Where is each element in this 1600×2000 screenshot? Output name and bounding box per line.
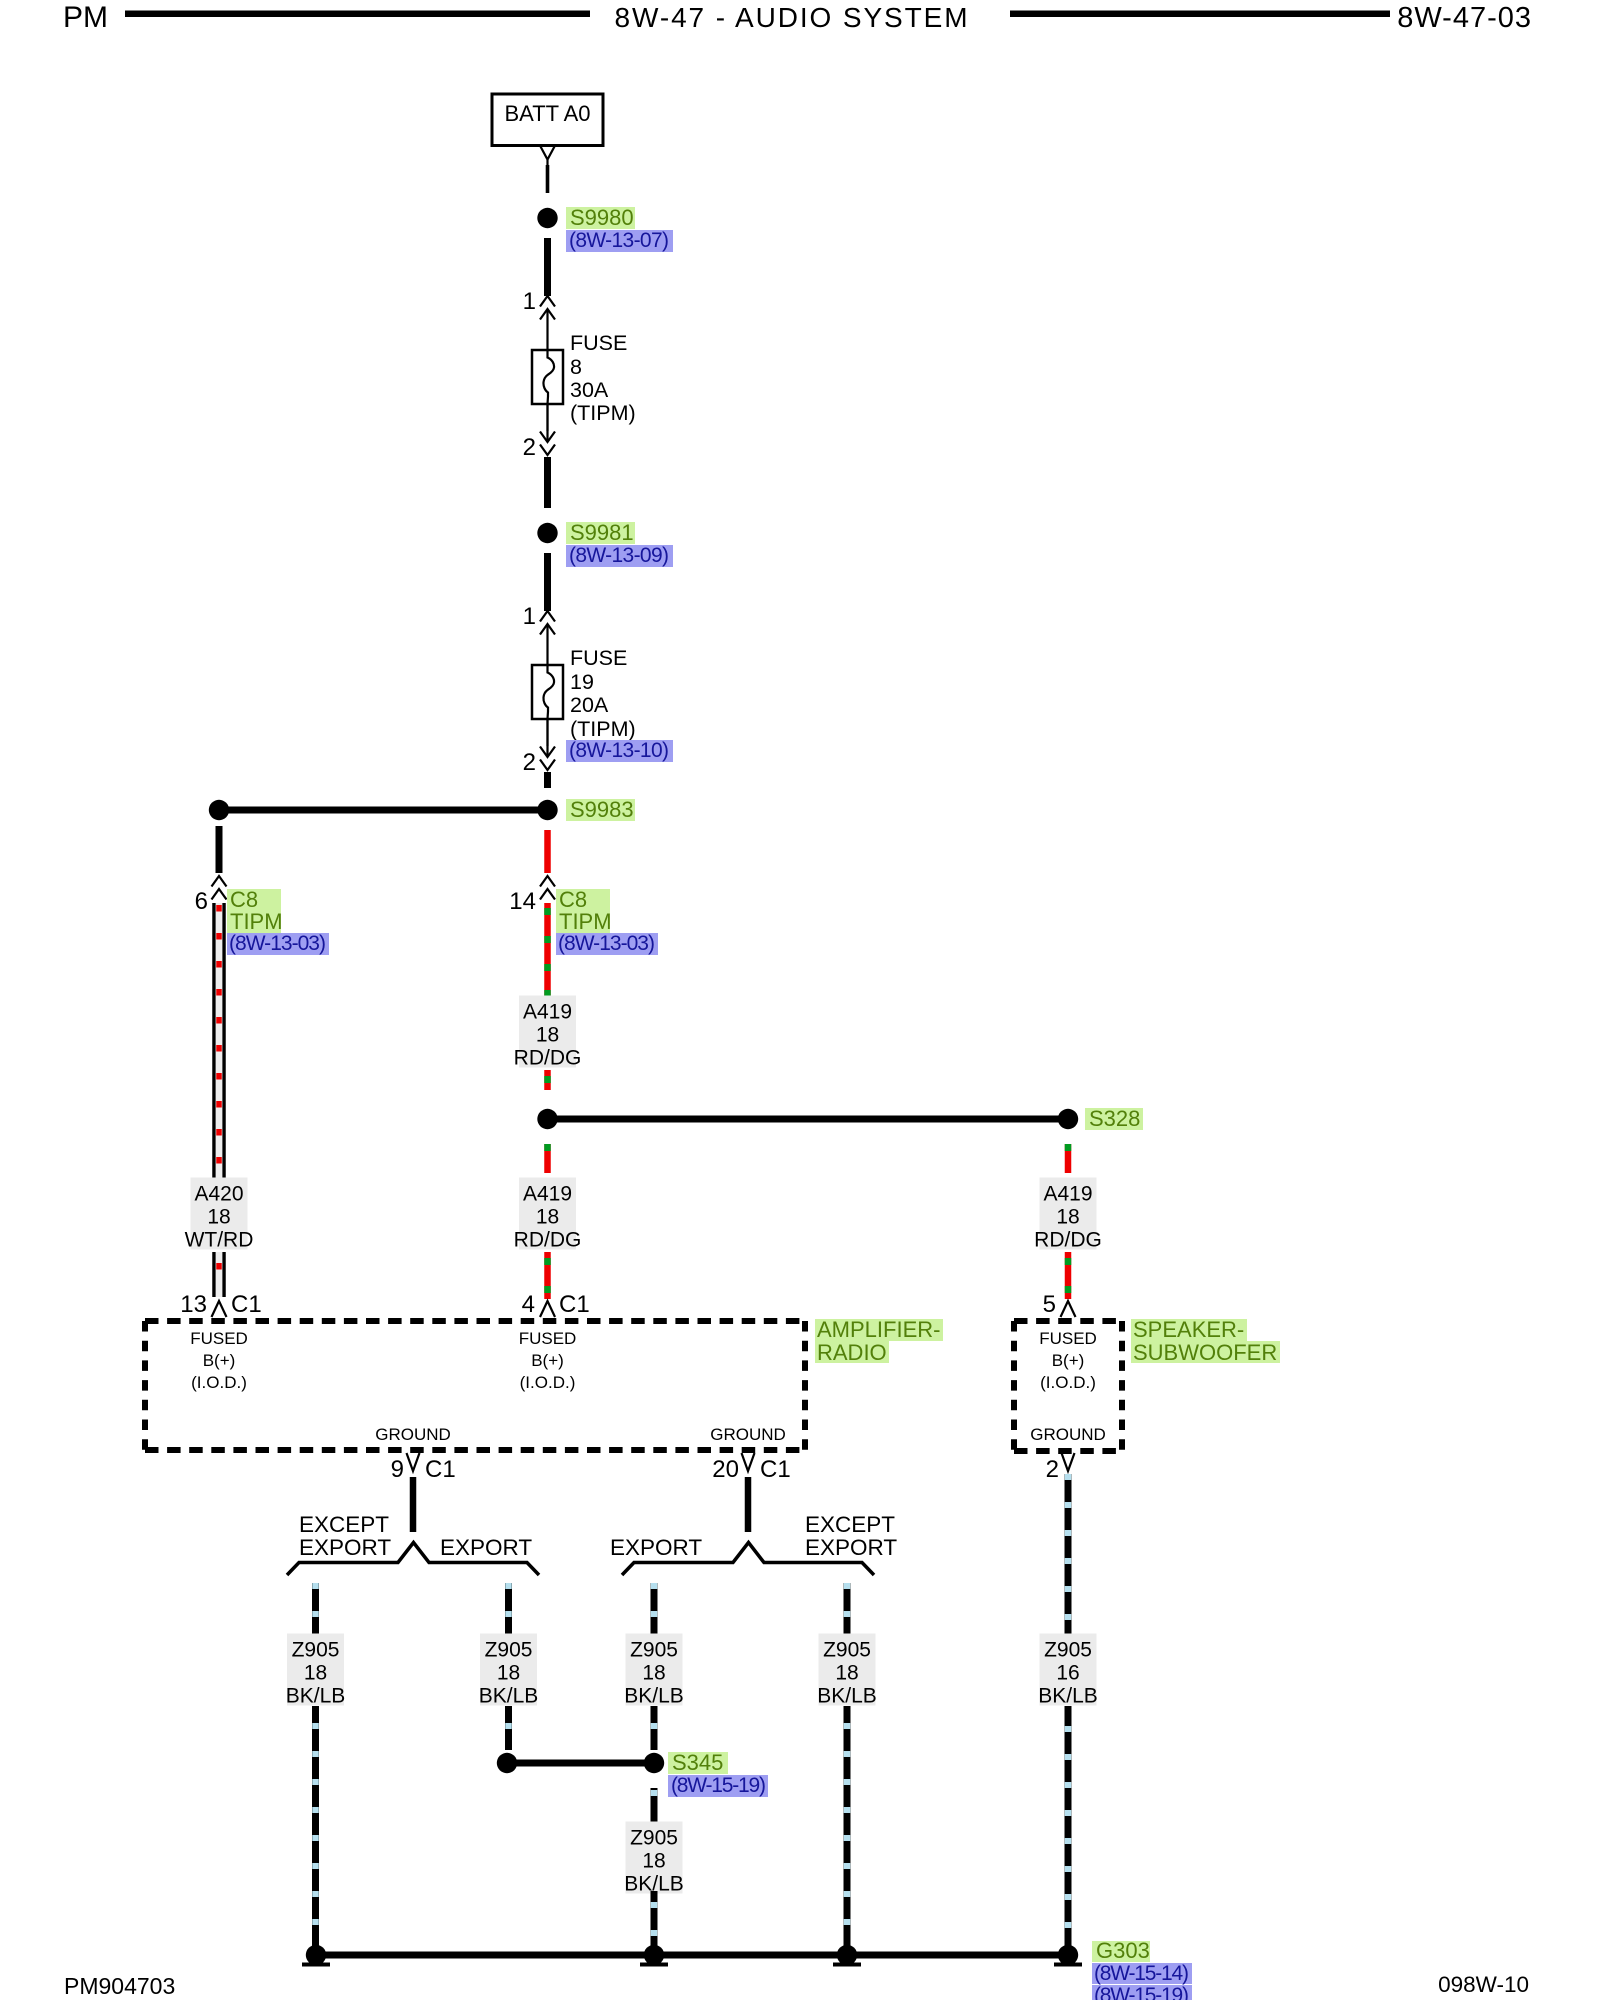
label Z905 18 BK/LB no2 (480, 1634, 537, 1706)
svg-text:EXPORT: EXPORT (299, 1535, 391, 1560)
label S345 (668, 1752, 728, 1774)
svg-text:(8W-13-03): (8W-13-03) (229, 932, 326, 955)
svg-text:PM904703: PM904703 (64, 1973, 175, 1999)
wire Z905 16 BK/LB lower (1065, 1706, 1072, 1950)
label A420 18 WT/RD (191, 1178, 248, 1250)
svg-text:GROUND: GROUND (710, 1425, 786, 1444)
svg-text:5: 5 (1043, 1291, 1056, 1318)
svg-text:(I.O.D.): (I.O.D.) (520, 1373, 576, 1392)
label A419 18 RD/DG right (1040, 1178, 1097, 1250)
svg-text:18: 18 (642, 1850, 665, 1873)
svg-text:FUSE: FUSE (570, 331, 627, 355)
svg-text:EXCEPT: EXCEPT (805, 1512, 895, 1537)
svg-text:A420: A420 (194, 1183, 243, 1206)
svg-text:G303: G303 (1096, 1938, 1150, 1963)
svg-text:FUSED: FUSED (519, 1329, 577, 1348)
svg-text:(8W-13-03): (8W-13-03) (558, 932, 655, 955)
svg-text:(I.O.D.): (I.O.D.) (191, 1373, 247, 1392)
svg-text:BK/LB: BK/LB (286, 1685, 346, 1708)
label (8W-13-03) centre (556, 933, 658, 955)
svg-text:SUBWOOFER: SUBWOOFER (1133, 1340, 1277, 1365)
label SPEAKER-SUBWOOFER (1131, 1319, 1247, 1341)
label Z905 18 BK/LB no4 (819, 1634, 876, 1706)
wire S9983 to C8 pin 14 (544, 830, 551, 873)
label Z905 16 BK/LB (1040, 1634, 1097, 1706)
ground bus G303 (316, 1952, 1068, 1959)
label C8 TIPM centre (556, 889, 610, 933)
svg-text:(8W-13-10): (8W-13-10) (569, 739, 669, 762)
label (8W-15-19) at G303 (1092, 1985, 1192, 2000)
splice S328 bus (548, 1116, 1069, 1123)
label S9981 (566, 522, 635, 544)
wire through fuse 19 (546, 625, 548, 746)
label (8W-13-07) (566, 230, 673, 252)
fuse 8 30A (TIPM) (532, 350, 563, 404)
wire fuse 19 pin 2 to S9983 (544, 772, 551, 788)
svg-text:18: 18 (642, 1662, 665, 1685)
wire through fuse 8 (546, 310, 548, 431)
wire S345 to G303 (651, 1788, 658, 1822)
splice S9980 (537, 208, 557, 228)
svg-text:GROUND: GROUND (1030, 1425, 1106, 1444)
svg-text:TIPM: TIPM (230, 909, 283, 934)
wire A419 18 RD/DG upper (544, 903, 551, 996)
svg-text:EXPORT: EXPORT (440, 1535, 532, 1560)
svg-text:FUSE: FUSE (570, 646, 627, 670)
svg-text:RD/DG: RD/DG (514, 1047, 582, 1070)
wire S9983 to C8 pin 6 (216, 826, 223, 873)
svg-text:(8W-15-14): (8W-15-14) (1094, 1962, 1189, 1985)
svg-text:TIPM: TIPM (559, 909, 612, 934)
svg-text:PM: PM (63, 1, 108, 34)
svg-text:BK/LB: BK/LB (817, 1685, 877, 1708)
svg-text:BATT A0: BATT A0 (504, 101, 590, 126)
svg-text:6: 6 (195, 888, 208, 915)
svg-text:18: 18 (536, 1206, 559, 1229)
wire fuse 19 exit (546, 719, 548, 757)
wire fuse 8 pin 2 to S9981 (544, 457, 551, 508)
splice S9983 bus (219, 807, 548, 814)
svg-text:C1: C1 (760, 1456, 791, 1483)
svg-text:(8W-13-09): (8W-13-09) (569, 544, 669, 567)
svg-text:B(+): B(+) (1052, 1351, 1085, 1370)
label A419 18 RD/DG upper (519, 996, 576, 1068)
svg-text:(8W-13-07): (8W-13-07) (569, 229, 669, 252)
svg-text:2: 2 (523, 434, 536, 461)
svg-text:S328: S328 (1089, 1106, 1140, 1131)
label AMPLIFIER-RADIO (815, 1319, 943, 1341)
svg-text:18: 18 (536, 1024, 559, 1047)
svg-text:(8W-15-19): (8W-15-19) (1094, 1984, 1189, 2000)
svg-text:(TIPM): (TIPM) (570, 401, 636, 425)
wire BATT A0 to S9980 (546, 165, 550, 193)
svg-text:EXPORT: EXPORT (805, 1535, 897, 1560)
wire A419 to subwoofer pin 5 (1065, 1252, 1072, 1299)
svg-text:(I.O.D.): (I.O.D.) (1040, 1373, 1096, 1392)
svg-text:GROUND: GROUND (375, 1425, 451, 1444)
svg-text:Z905: Z905 (823, 1639, 871, 1662)
wire Z905 18 BK/LB no3 mid (651, 1706, 658, 1750)
svg-text:FUSED: FUSED (190, 1329, 248, 1348)
label (8W-15-19) at S345 (668, 1775, 768, 1797)
svg-text:FUSED: FUSED (1039, 1329, 1097, 1348)
svg-text:BK/LB: BK/LB (624, 1685, 684, 1708)
wire A419 18 RD/DG to S328 (544, 1070, 551, 1090)
label Z905 18 BK/LB no3 (626, 1634, 683, 1706)
svg-text:(TIPM): (TIPM) (570, 717, 636, 741)
svg-text:RD/DG: RD/DG (514, 1229, 582, 1252)
wire A420 18 WT/RD upper (212, 903, 216, 1178)
svg-text:9: 9 (391, 1456, 404, 1483)
svg-text:SPEAKER-: SPEAKER- (1133, 1317, 1244, 1342)
svg-text:20A: 20A (570, 693, 609, 717)
svg-text:14: 14 (509, 888, 536, 915)
svg-text:16: 16 (1056, 1662, 1079, 1685)
svg-text:Z905: Z905 (630, 1827, 678, 1850)
label Z905 18 BK/LB no5 (626, 1822, 683, 1894)
svg-text:1: 1 (523, 288, 536, 315)
svg-text:19: 19 (570, 670, 594, 694)
svg-text:B(+): B(+) (203, 1351, 236, 1370)
amplifier-radio dashed outline (145, 1321, 805, 1450)
svg-text:18: 18 (1056, 1206, 1079, 1229)
label C8 TIPM left (227, 889, 281, 933)
svg-text:EXPORT: EXPORT (610, 1535, 702, 1560)
svg-text:S9981: S9981 (570, 520, 634, 545)
wire S328 to A419 label right (1065, 1144, 1072, 1173)
svg-text:2: 2 (1046, 1456, 1059, 1483)
svg-text:BK/LB: BK/LB (479, 1685, 539, 1708)
label S328 (1085, 1108, 1143, 1130)
svg-text:BK/LB: BK/LB (1038, 1685, 1098, 1708)
svg-text:20: 20 (712, 1456, 739, 1483)
wire Z905 16 BK/LB right (1065, 1474, 1072, 1637)
svg-text:8W-47-03: 8W-47-03 (1397, 2, 1532, 34)
wire A419 to C1 pin 4 (544, 1252, 551, 1299)
svg-text:A419: A419 (523, 1183, 572, 1206)
label S9980 (566, 207, 635, 229)
wire Z905 18 BK/LB no1 upper (312, 1583, 319, 1637)
wire Z905 below label no5 (651, 1891, 658, 1950)
battery B+ source BATT A0 (492, 94, 603, 146)
svg-text:8W-47 - AUDIO SYSTEM: 8W-47 - AUDIO SYSTEM (615, 2, 970, 33)
svg-text:B(+): B(+) (531, 1351, 564, 1370)
wire Z905 18 BK/LB no2 upper (505, 1583, 512, 1637)
svg-text:WT/RD: WT/RD (185, 1229, 254, 1252)
wire C1 pin 20 down (745, 1477, 752, 1532)
svg-text:30A: 30A (570, 378, 609, 402)
wire Z905 18 BK/LB no1 lower (312, 1706, 319, 1950)
splice S345 bus (507, 1760, 654, 1767)
terminal Y below BATT A0 (541, 147, 555, 166)
svg-text:18: 18 (497, 1662, 520, 1685)
svg-text:S345: S345 (672, 1750, 723, 1775)
svg-text:S9980: S9980 (570, 205, 634, 230)
branch fork pin 20 (622, 1543, 874, 1576)
svg-text:A419: A419 (523, 1001, 572, 1024)
branch fork pin 9 (287, 1543, 539, 1576)
wire Z905 18 BK/LB no4 lower (844, 1706, 851, 1950)
header rule left (125, 11, 590, 18)
svg-text:18: 18 (835, 1662, 858, 1685)
label Z905 18 BK/LB no1 (287, 1634, 344, 1706)
svg-text:(8W-15-19): (8W-15-19) (671, 1774, 766, 1797)
label G303 (1092, 1941, 1150, 1962)
svg-text:RD/DG: RD/DG (1034, 1229, 1102, 1252)
wire C1 pin 9 down (410, 1477, 417, 1532)
svg-text:C1: C1 (425, 1456, 456, 1483)
wire S9980 to fuse 8 pin 1 (544, 238, 551, 296)
svg-text:18: 18 (304, 1662, 327, 1685)
label A419 18 RD/DG centre (519, 1178, 576, 1250)
svg-text:8: 8 (570, 355, 582, 379)
wire A420 18 WT/RD lower (212, 1252, 216, 1297)
svg-text:EXCEPT: EXCEPT (299, 1512, 389, 1537)
wire S9981 to fuse 19 pin 1 (544, 553, 551, 611)
wire Z905 18 BK/LB no2 lower (505, 1706, 512, 1750)
header rule right (1010, 11, 1390, 18)
fuse 19 20A (TIPM) (532, 665, 563, 719)
wire fuse 8 exit (546, 404, 548, 442)
svg-text:098W-10: 098W-10 (1438, 1972, 1529, 1997)
wire S328 to A419 label centre (544, 1144, 551, 1173)
label (8W-13-10) (566, 740, 673, 762)
svg-text:18: 18 (207, 1206, 230, 1229)
svg-text:1: 1 (523, 603, 536, 630)
splice S9981 (537, 523, 557, 543)
svg-text:Z905: Z905 (485, 1639, 533, 1662)
svg-text:Z905: Z905 (630, 1639, 678, 1662)
svg-text:RADIO: RADIO (817, 1340, 887, 1365)
svg-text:4: 4 (522, 1291, 535, 1318)
wire Z905 18 BK/LB no3 upper (651, 1583, 658, 1637)
svg-text:Z905: Z905 (1044, 1639, 1092, 1662)
label (8W-15-14) (1092, 1963, 1192, 1984)
label S9983 (566, 799, 635, 821)
label (8W-13-09) (566, 545, 673, 567)
label (8W-13-03) left (227, 933, 329, 955)
speaker-subwoofer dashed outline (1014, 1321, 1122, 1451)
svg-text:S9983: S9983 (570, 797, 634, 822)
svg-text:A419: A419 (1043, 1183, 1092, 1206)
svg-text:Z905: Z905 (292, 1639, 340, 1662)
wire Z905 18 BK/LB no4 upper (844, 1583, 851, 1637)
svg-text:2: 2 (523, 749, 536, 776)
svg-text:C1: C1 (559, 1291, 590, 1318)
svg-text:C1: C1 (231, 1291, 262, 1318)
svg-text:AMPLIFIER-: AMPLIFIER- (817, 1317, 940, 1342)
svg-text:13: 13 (180, 1291, 207, 1318)
